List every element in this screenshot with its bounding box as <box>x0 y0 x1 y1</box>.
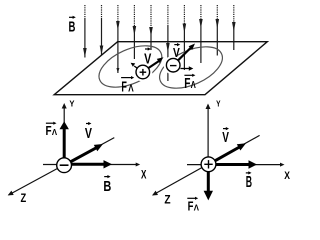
svg-text:X: X <box>284 170 290 182</box>
svg-text:Y: Y <box>69 98 75 108</box>
svg-text:V: V <box>222 129 229 146</box>
svg-text:B: B <box>69 18 76 35</box>
svg-text:Λ: Λ <box>52 127 58 137</box>
svg-text:Y: Y <box>216 99 221 109</box>
svg-text:F: F <box>184 76 190 92</box>
svg-text:V: V <box>85 125 92 142</box>
svg-text:F: F <box>188 200 194 214</box>
svg-text:F: F <box>46 124 52 138</box>
svg-text:F: F <box>121 80 127 96</box>
svg-text:Λ: Λ <box>128 84 134 95</box>
svg-text:B: B <box>246 174 252 191</box>
svg-text:Λ: Λ <box>194 203 200 213</box>
svg-text:X: X <box>141 168 146 182</box>
svg-text:V: V <box>173 46 180 60</box>
svg-text:Z: Z <box>164 195 170 207</box>
svg-text:B: B <box>103 178 111 195</box>
svg-text:Λ: Λ <box>191 80 196 91</box>
svg-text:V: V <box>144 50 151 67</box>
svg-text:Z: Z <box>21 191 27 205</box>
